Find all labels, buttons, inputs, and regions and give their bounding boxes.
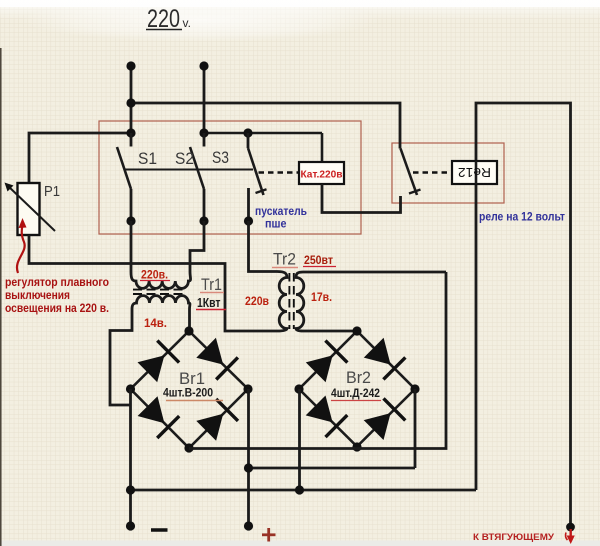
node: plus terminal — [244, 521, 253, 530]
red frame box 1 (starter пускатель) — [99, 121, 361, 234]
svg-text:выключения: выключения — [5, 290, 70, 302]
Tr2 secondary (right) winding to Br2 — [296, 272, 446, 331]
plus sign — [262, 528, 276, 542]
node: terminal B — [199, 61, 208, 70]
svg-text:освещения на 220 в.: освещения на 220 в. — [5, 303, 109, 315]
red caption регулятор... — [5, 277, 109, 315]
node: plus junction — [244, 463, 253, 472]
contactor coil Кат.220в box — [299, 133, 344, 184]
node: minus terminal — [126, 521, 135, 530]
svg-text:Br1: Br1 — [179, 369, 205, 388]
dashed link S3 to contactor coil — [259, 171, 300, 173]
wire: top bus 220v — [131, 103, 400, 149]
svg-text:P1: P1 — [44, 183, 60, 200]
left photo edge line — [0, 48, 2, 546]
transformer Tr1 — [110, 221, 226, 405]
node: Br2 left — [294, 384, 303, 393]
svg-text:220в: 220в — [245, 296, 269, 308]
svg-text:Br2: Br2 — [346, 368, 371, 387]
node: S3 top — [243, 128, 252, 137]
svg-text:S1: S1 — [138, 149, 157, 168]
node: Br1 left — [126, 384, 135, 393]
node: Br1 bottom — [184, 443, 193, 452]
diode Br1 D4 (lower-right) — [196, 399, 238, 441]
wire: minus bus y=490 — [131, 489, 477, 492]
svg-text:реле на 12 вольт: реле на 12 вольт — [479, 212, 565, 224]
switch S3 — [212, 133, 267, 221]
svg-text:220в.: 220в. — [141, 270, 168, 282]
bridge Br2 frame — [299, 331, 415, 447]
diode Br1 D2 (upper-right) — [196, 338, 238, 380]
red arrow down at solenoid terminal — [566, 529, 575, 544]
wire: coil bottom to relay contact — [322, 184, 401, 213]
svg-text:регулятор плавного: регулятор плавного — [5, 277, 109, 289]
red adjustment arrow at P1 — [17, 218, 27, 273]
wire: Br1 bottom to Tr2 secondary return — [189, 272, 446, 449]
node: Br1 right — [243, 384, 252, 393]
svg-text:4шт.В-200: 4шт.В-200 — [163, 388, 213, 400]
Tr2 primary (left) winding fed from S3 — [249, 221, 288, 331]
Tr1 secondary winding — [110, 296, 190, 405]
node: S3 bottom — [244, 216, 253, 225]
wire: Br2 left corner down — [298, 389, 301, 490]
svg-text:Кат.220в: Кат.220в — [301, 170, 343, 181]
wire: Br1 right corner down to plus terminal — [247, 389, 250, 526]
relay Re12 circuit right loop — [476, 103, 571, 524]
svg-text:250вт: 250вт — [304, 255, 333, 267]
wire: S2-S3 top link to contactor coil — [204, 132, 322, 135]
svg-text:пше: пше — [265, 219, 287, 231]
svg-text:v.: v. — [183, 16, 191, 30]
bridge Br1 frame — [131, 331, 249, 448]
minus sign — [151, 528, 168, 531]
node: S1 bottom — [126, 216, 135, 225]
node: minus bus at Br2 — [295, 485, 304, 494]
title 220v. — [146, 5, 191, 33]
diode Br2 D4 (lower-right) — [364, 398, 406, 440]
white glare band at top — [0, 0, 600, 7]
node: Br2 top — [352, 326, 361, 335]
svg-text:S3: S3 — [212, 148, 229, 167]
svg-text:4шт.Д-242: 4шт.Д-242 — [331, 388, 380, 400]
node: Br2 bottom — [352, 442, 361, 451]
svg-text:Tr2: Tr2 — [273, 251, 296, 269]
node: solenoid terminal — [566, 523, 575, 532]
Tr1 primary winding with S1/S2 connections — [131, 221, 204, 288]
wire: Br2 right corner down — [414, 389, 417, 468]
relay contact (Re12 contact) — [401, 149, 421, 196]
wire: mains terminal B vertical — [203, 66, 206, 133]
wire: mains terminal A vertical — [130, 66, 133, 133]
diode Br2 D1 (upper-left) — [306, 341, 348, 383]
ganged linkage bar — [124, 169, 254, 171]
node: minus bus at Br1 — [126, 485, 135, 494]
svg-text:S2: S2 — [175, 149, 194, 168]
transformer Tr2 — [245, 221, 446, 331]
Tr1 core — [133, 289, 187, 291]
dashed link contact to Re12 — [413, 171, 452, 173]
diode Br1 D3 (lower-left) — [138, 396, 180, 438]
Tr2 core — [288, 273, 290, 329]
diode Br2 D3 (lower-left) — [306, 396, 348, 438]
diode Br1 D1 (upper-left) — [138, 341, 180, 383]
node: S2 top — [199, 128, 208, 137]
svg-text:пускатель: пускатель — [255, 206, 307, 218]
switch S2 — [175, 133, 204, 221]
node: S2 bottom — [199, 216, 208, 225]
svg-text:Tr1: Tr1 — [201, 276, 222, 294]
svg-text:Re12: Re12 — [458, 165, 491, 179]
wire: plus link y=468 — [249, 467, 416, 470]
switch S1 — [117, 133, 157, 221]
diode Br2 D2 (upper-right) — [364, 338, 406, 380]
red frame box 2 (relay) — [392, 143, 504, 203]
wire: minus terminal drop — [129, 490, 132, 526]
node: S1 top — [126, 128, 135, 137]
svg-text:17в.: 17в. — [311, 292, 332, 304]
node: Br1 top — [184, 326, 193, 335]
svg-text:К ВТЯГУЮЩЕМУ: К ВТЯГУЮЩЕМУ — [473, 532, 554, 543]
node: terminal A — [126, 61, 135, 70]
wire: branch to P1 — [29, 133, 131, 183]
node: Br2 right — [410, 384, 419, 393]
wire: P1 bottom to Tr2 primary bottom — [29, 235, 277, 331]
svg-text:1Квт: 1Квт — [197, 296, 221, 310]
svg-text:14в.: 14в. — [144, 318, 167, 330]
node: bus junction at S1 — [126, 98, 135, 107]
wire: Br1 left corner down to minus bus — [129, 389, 132, 490]
potentiometer P1 — [5, 183, 61, 236]
relay Re12 box — [452, 161, 497, 184]
bottom light band — [0, 541, 600, 546]
